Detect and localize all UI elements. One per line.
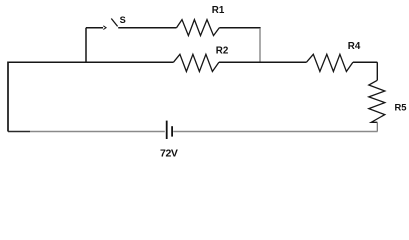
- wire: R4 to top-right corner: [353, 61, 377, 63]
- wire: bottom left gray to battery: [30, 131, 165, 133]
- wire: middle left from node to R2: [8, 61, 174, 63]
- wire: R1 to right connector: [219, 27, 260, 29]
- svg-text:72V: 72V: [160, 148, 178, 160]
- battery 72V: [167, 121, 172, 139]
- resistor R5: [369, 80, 385, 122]
- svg-text:S: S: [120, 15, 126, 25]
- resistor R2: [174, 54, 219, 71]
- wire: bottom right from battery to right corner: [173, 131, 377, 133]
- wire: R2 to R4: [219, 61, 307, 63]
- wire: R5 bottom to bottom wire: [376, 122, 378, 131]
- wire top: riser to switch left contact: [86, 27, 103, 29]
- wire: switch right contact to R1: [118, 27, 176, 29]
- svg-text:R1: R1: [212, 5, 225, 16]
- wire: left vertical: [7, 62, 9, 132]
- wire: riser from middle wire up to top wire: [85, 28, 87, 63]
- wire: gray vertical connector R1 branch down to middle wire: [259, 28, 261, 62]
- resistor R1: [177, 20, 220, 36]
- svg-text:R5: R5: [395, 102, 407, 113]
- resistor R4: [307, 54, 353, 71]
- switch S: [103, 19, 117, 30]
- wire: right vertical down to R5: [376, 62, 378, 80]
- svg-text:R2: R2: [216, 46, 229, 57]
- svg-text:R4: R4: [348, 41, 361, 52]
- wire: bottom-left black corner segment: [8, 131, 30, 133]
